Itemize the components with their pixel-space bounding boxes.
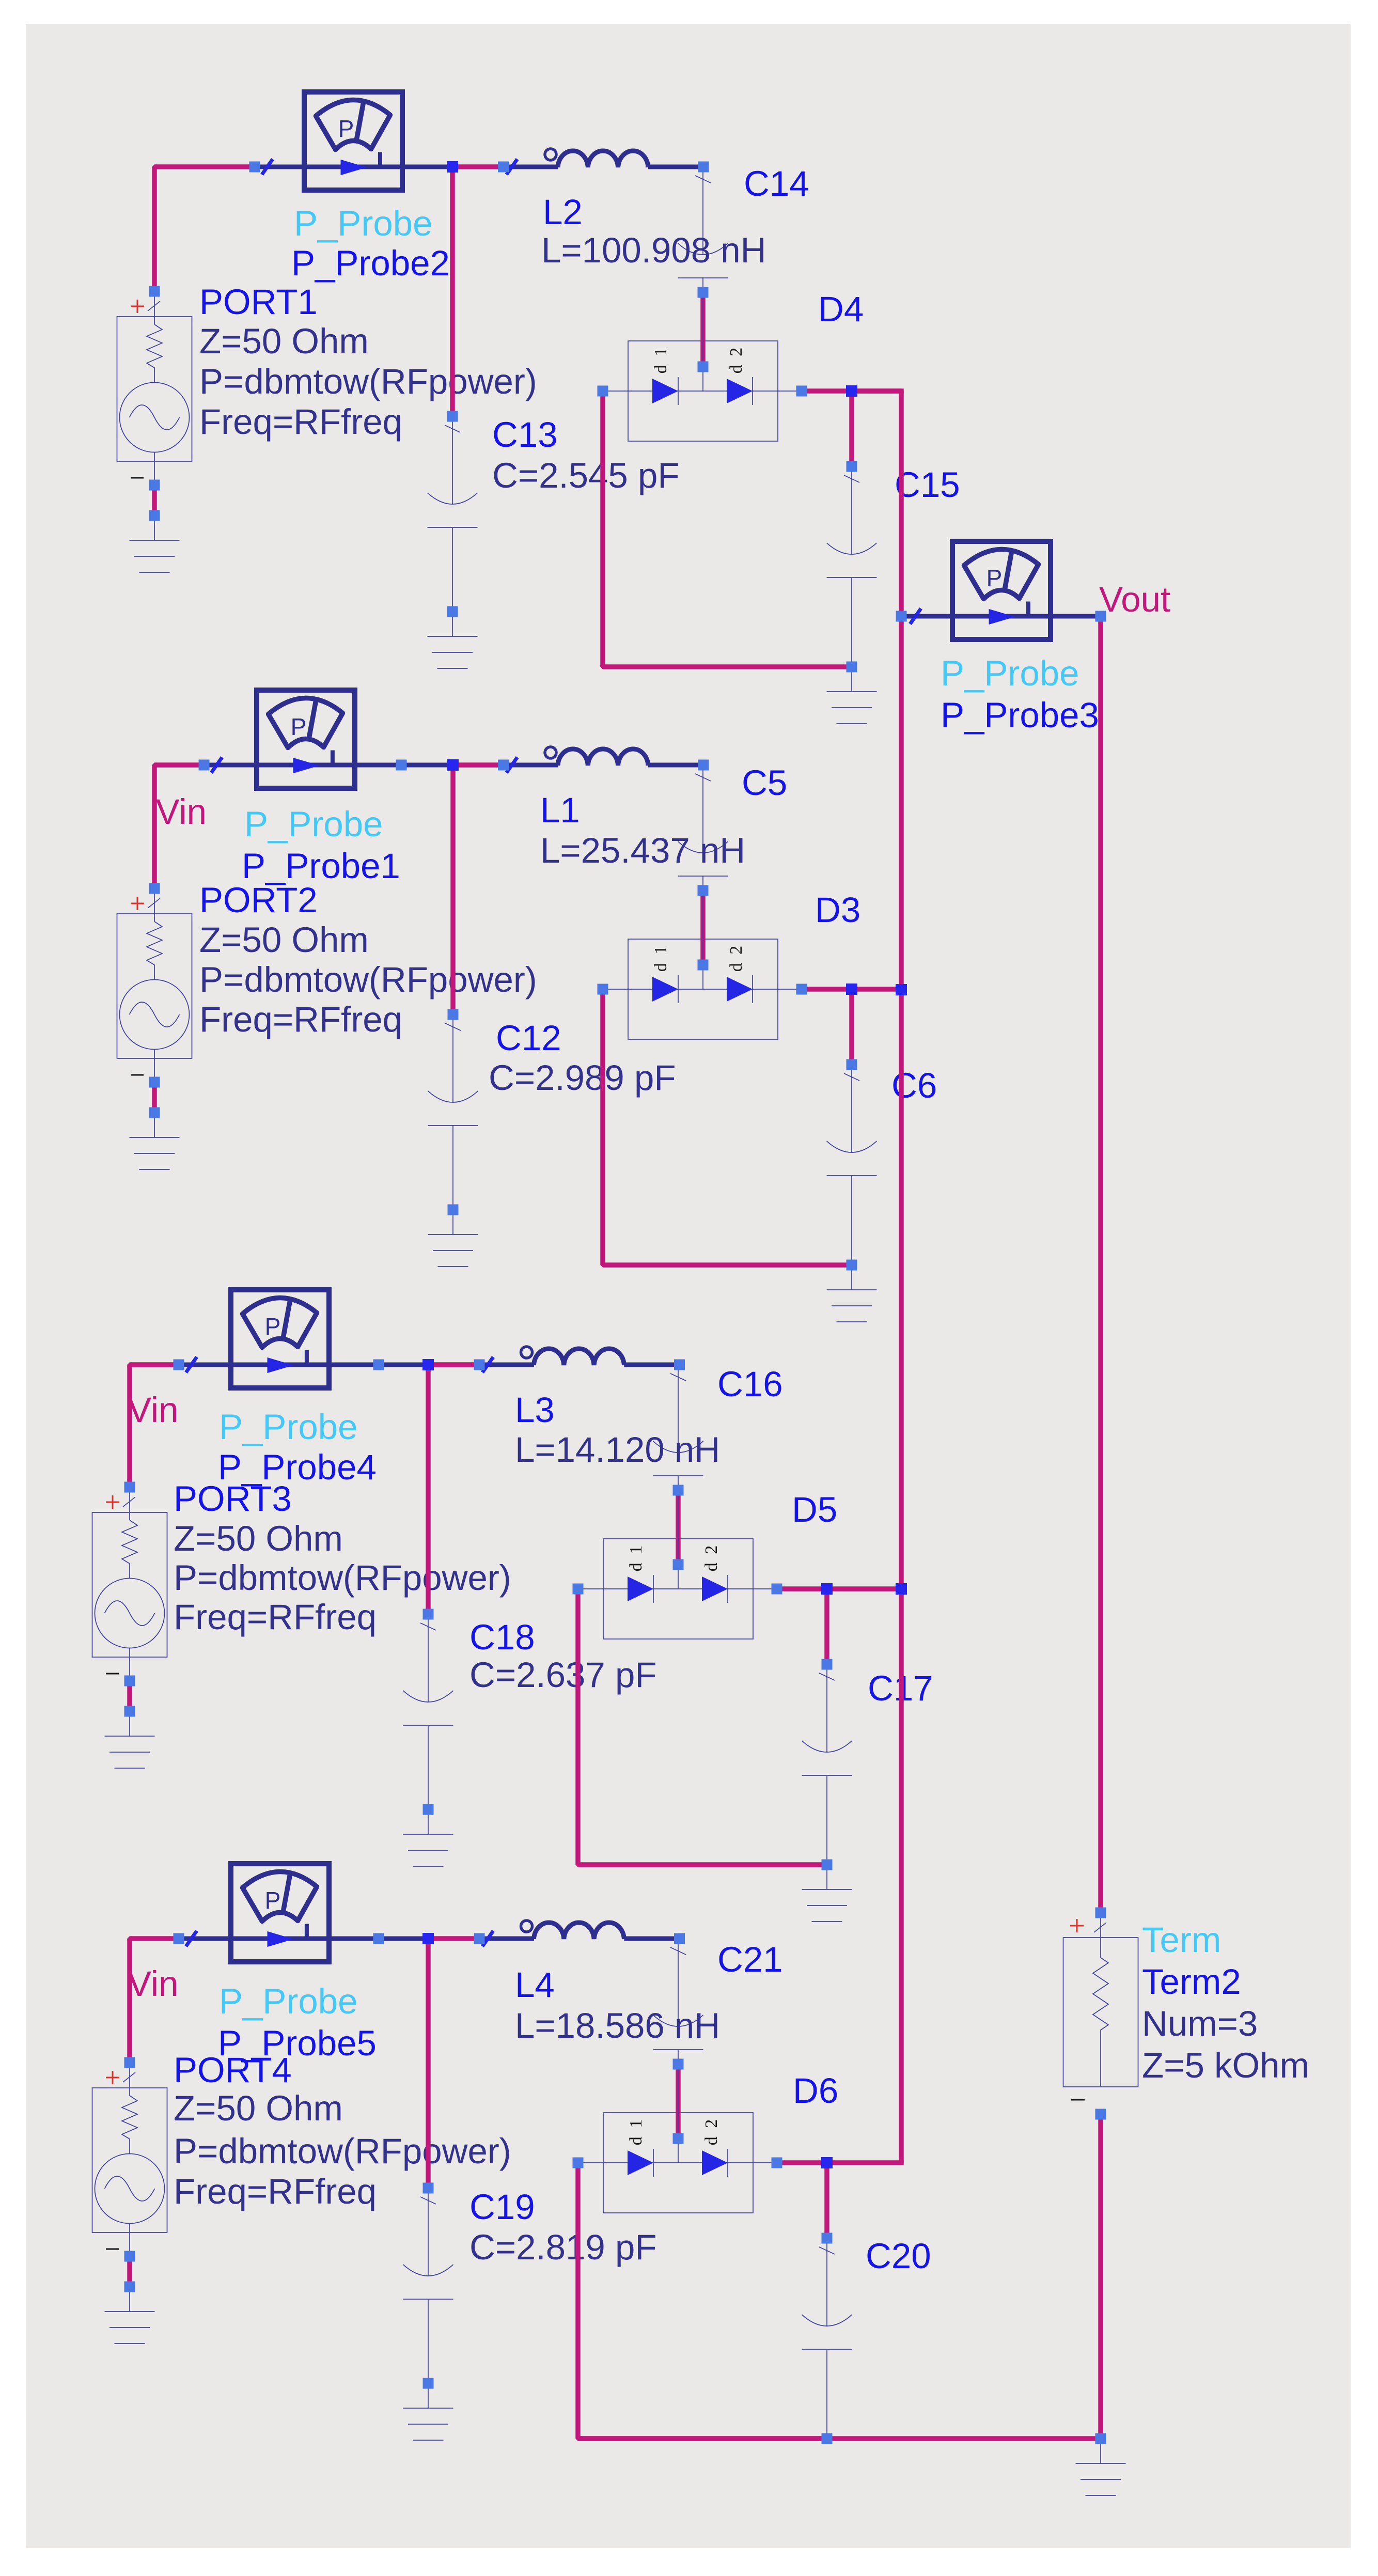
svg-text:C=2.637 pF: C=2.637 pF	[469, 1655, 657, 1695]
svg-text:P: P	[291, 713, 307, 740]
svg-text:P_Probe3: P_Probe3	[941, 695, 1099, 735]
svg-text:Freq=RFfreq: Freq=RFfreq	[199, 402, 402, 442]
svg-text:PORT3: PORT3	[174, 1479, 292, 1519]
svg-text:PORT1: PORT1	[199, 282, 318, 322]
svg-text:P: P	[986, 565, 1003, 591]
svg-text:P=dbmtow(RFpower): P=dbmtow(RFpower)	[174, 1558, 511, 1598]
svg-text:C12: C12	[496, 1018, 561, 1058]
svg-text:C=2.819 pF: C=2.819 pF	[469, 2227, 657, 2267]
svg-text:P_Probe: P_Probe	[294, 204, 433, 243]
svg-text:C19: C19	[469, 2187, 535, 2227]
svg-text:d 1: d 1	[627, 2117, 646, 2146]
svg-text:C=2.989 pF: C=2.989 pF	[489, 1058, 676, 1098]
svg-text:C=2.545 pF: C=2.545 pF	[492, 456, 680, 495]
svg-text:d 2: d 2	[702, 1543, 721, 1572]
svg-text:Num=3: Num=3	[1142, 2004, 1258, 2043]
svg-text:P_Probe: P_Probe	[219, 1407, 358, 1447]
svg-text:C20: C20	[866, 2236, 931, 2276]
svg-text:L=100.908 nH: L=100.908 nH	[541, 230, 766, 270]
svg-text:Freq=RFfreq: Freq=RFfreq	[174, 2172, 377, 2211]
svg-text:Vin: Vin	[156, 792, 207, 832]
svg-text:D3: D3	[815, 890, 860, 930]
svg-text:Term: Term	[1142, 1920, 1221, 1960]
svg-text:Freq=RFfreq: Freq=RFfreq	[199, 1000, 402, 1039]
svg-text:d 1: d 1	[651, 944, 670, 972]
svg-text:C14: C14	[744, 164, 809, 204]
svg-text:P_Probe2: P_Probe2	[291, 243, 450, 283]
svg-text:Vin: Vin	[128, 1390, 178, 1430]
svg-text:d 1: d 1	[627, 1543, 646, 1572]
svg-text:P_Probe: P_Probe	[219, 1981, 358, 2021]
svg-text:Z=5 kOhm: Z=5 kOhm	[1142, 2046, 1309, 2085]
svg-text:C21: C21	[717, 1940, 783, 1979]
svg-text:C6: C6	[891, 1066, 937, 1105]
svg-text:D4: D4	[818, 289, 864, 329]
svg-text:P_Probe: P_Probe	[244, 804, 383, 844]
svg-text:P: P	[265, 1887, 281, 1914]
svg-text:P=dbmtow(RFpower): P=dbmtow(RFpower)	[199, 960, 537, 1000]
svg-text:PORT2: PORT2	[199, 880, 318, 920]
svg-text:Freq=RFfreq: Freq=RFfreq	[174, 1597, 377, 1637]
svg-text:Z=50 Ohm: Z=50 Ohm	[199, 920, 369, 960]
svg-text:Vin: Vin	[128, 1964, 178, 2004]
svg-text:C13: C13	[492, 415, 558, 455]
svg-text:Z=50 Ohm: Z=50 Ohm	[174, 2088, 343, 2128]
svg-text:C18: C18	[469, 1617, 535, 1657]
svg-text:C5: C5	[742, 763, 787, 803]
svg-text:D6: D6	[793, 2071, 838, 2111]
svg-text:C16: C16	[717, 1364, 783, 1404]
svg-text:d 2: d 2	[727, 346, 746, 374]
svg-text:P: P	[338, 115, 354, 142]
svg-text:d 2: d 2	[702, 2117, 721, 2146]
svg-text:L=25.437 nH: L=25.437 nH	[540, 831, 745, 870]
svg-text:Vout: Vout	[1099, 580, 1170, 619]
svg-text:Term2: Term2	[1142, 1962, 1241, 2002]
svg-text:d 1: d 1	[651, 346, 670, 374]
svg-text:D5: D5	[792, 1490, 837, 1529]
svg-text:d 2: d 2	[727, 944, 746, 972]
svg-text:C15: C15	[895, 465, 960, 505]
svg-text:P=dbmtow(RFpower): P=dbmtow(RFpower)	[174, 2131, 511, 2171]
svg-text:L2: L2	[543, 192, 583, 232]
svg-text:L=18.586 nH: L=18.586 nH	[515, 2006, 720, 2046]
svg-text:Z=50 Ohm: Z=50 Ohm	[199, 321, 369, 361]
svg-text:Z=50 Ohm: Z=50 Ohm	[174, 1519, 343, 1558]
svg-text:P=dbmtow(RFpower): P=dbmtow(RFpower)	[199, 362, 537, 401]
svg-text:L4: L4	[515, 1965, 555, 2005]
svg-text:P: P	[265, 1313, 281, 1340]
svg-text:P_Probe: P_Probe	[941, 653, 1079, 693]
svg-text:L=14.120 nH: L=14.120 nH	[515, 1430, 720, 1470]
svg-text:PORT4: PORT4	[174, 2050, 292, 2090]
svg-text:L1: L1	[540, 790, 580, 830]
svg-text:L3: L3	[515, 1390, 555, 1430]
